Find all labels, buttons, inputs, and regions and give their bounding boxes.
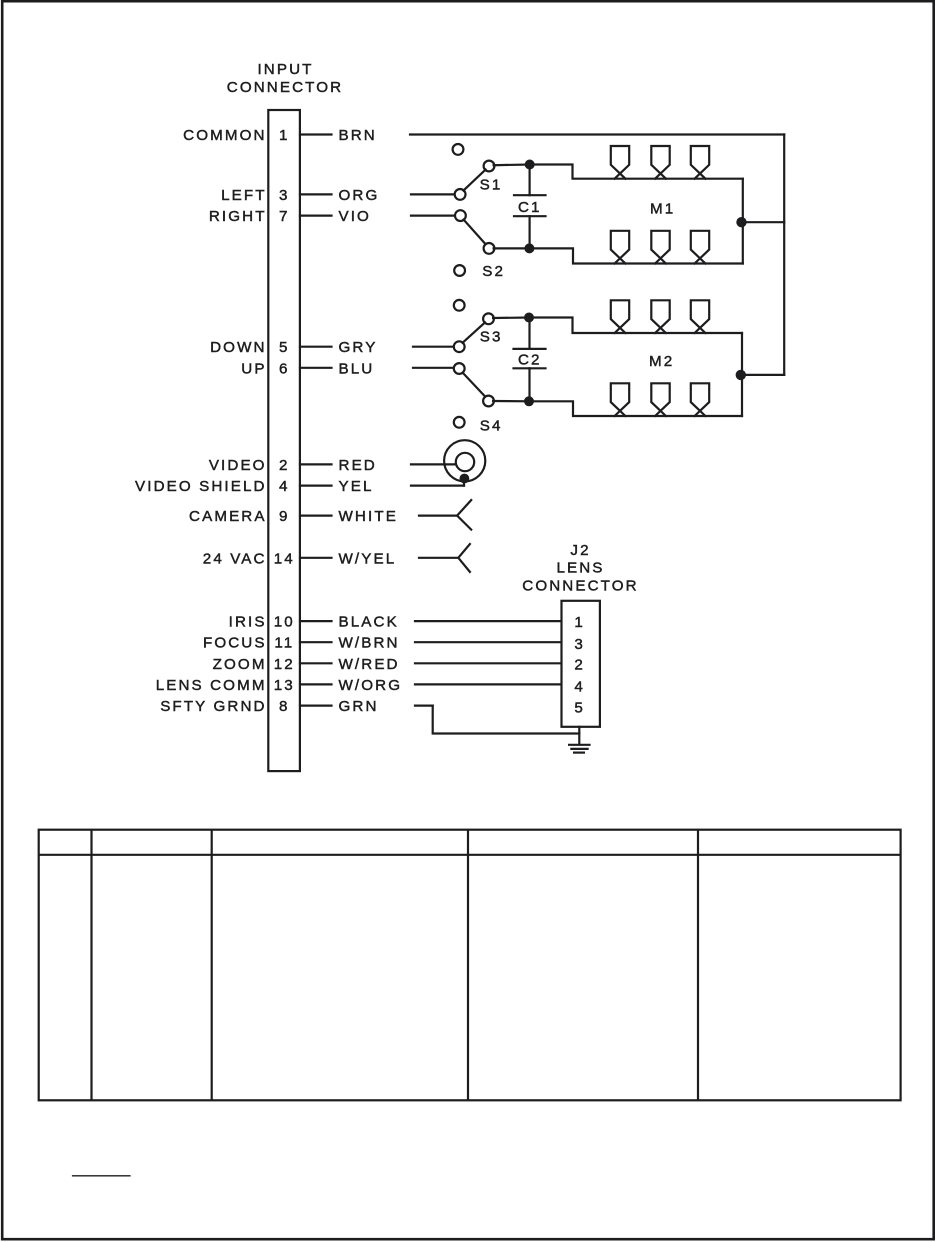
svg-text:1: 1 xyxy=(279,127,290,144)
footnote underline xyxy=(72,1175,131,1177)
wire S4 to node C2 bottom xyxy=(493,400,529,402)
wire YEL run xyxy=(411,485,464,487)
svg-text:2: 2 xyxy=(574,656,585,673)
switch S1 spare contact xyxy=(453,144,464,155)
pin 12 label ZOOM xyxy=(213,656,295,673)
svg-text:SFTY GRND: SFTY GRND xyxy=(160,698,266,715)
motor M2 top winding xyxy=(611,300,709,333)
wire J2 ground stub xyxy=(578,727,580,745)
capacitor C2 xyxy=(514,318,546,402)
svg-text:24 VAC: 24 VAC xyxy=(203,550,267,567)
wire BRN run xyxy=(410,133,784,135)
wire GRN run xyxy=(415,704,433,706)
svg-text:3: 3 xyxy=(574,636,585,653)
wire node to M1 top winding xyxy=(530,165,743,179)
switch S4 spare contact xyxy=(454,417,465,428)
svg-text:4: 4 xyxy=(574,678,585,695)
node junction C1 bottom xyxy=(524,243,534,253)
wire BLU run xyxy=(413,367,455,369)
pin 14 label 24 VAC xyxy=(203,550,295,567)
switch S3 common contact (pin 5) xyxy=(454,341,465,352)
node M1 center tap xyxy=(736,217,746,227)
switch S4 arm xyxy=(463,373,486,397)
svg-text:YEL: YEL xyxy=(339,478,374,495)
pin 3 label LEFT xyxy=(221,187,290,204)
svg-text:7: 7 xyxy=(279,208,290,225)
svg-text:BRN: BRN xyxy=(339,127,377,144)
svg-text:CONNECTOR: CONNECTOR xyxy=(522,577,639,594)
wire pin 4 stub xyxy=(300,485,332,487)
svg-text:C2: C2 xyxy=(518,351,542,368)
svg-text:12: 12 xyxy=(274,656,295,673)
motor M2 bottom winding xyxy=(611,383,709,416)
wire YEL shield stub xyxy=(463,479,465,486)
svg-text:ORG: ORG xyxy=(339,187,380,204)
wire RED run xyxy=(411,463,456,465)
wire pin 10 stub xyxy=(300,620,332,622)
pin 9 label CAMERA xyxy=(189,508,290,525)
node junction C2 top xyxy=(524,313,534,323)
wire pin 1 stub xyxy=(300,133,332,135)
svg-text:LENS: LENS xyxy=(556,560,604,577)
input connector title xyxy=(227,61,344,96)
wire W/ORG run xyxy=(415,683,562,685)
wire pin 7 stub xyxy=(300,215,332,217)
svg-text:VIDEO: VIDEO xyxy=(209,457,267,474)
svg-text:COMMON: COMMON xyxy=(183,127,266,144)
coax shield terminal dot xyxy=(460,474,470,484)
svg-text:GRN: GRN xyxy=(339,698,379,715)
wire W/YEL run xyxy=(419,557,458,559)
pin 10 label IRIS xyxy=(229,614,295,631)
wire S2 to node C1 bottom xyxy=(494,247,530,249)
svg-text:W/ORG: W/ORG xyxy=(339,677,403,694)
svg-text:FOCUS: FOCUS xyxy=(203,635,267,652)
svg-text:13: 13 xyxy=(274,677,295,694)
motor M1 right side + center tap xyxy=(742,179,744,264)
svg-text:CAMERA: CAMERA xyxy=(189,508,267,525)
svg-text:RIGHT: RIGHT xyxy=(209,208,267,225)
svg-text:M1: M1 xyxy=(650,200,675,217)
svg-text:9: 9 xyxy=(279,508,290,525)
pin 5 label DOWN xyxy=(210,339,289,356)
motor M2 right side + center tap xyxy=(741,333,743,416)
switch S2 throw contact xyxy=(484,243,495,254)
svg-text:11: 11 xyxy=(274,635,294,652)
svg-text:M2: M2 xyxy=(649,353,674,370)
pin 4 label VIDEO SHIELD xyxy=(135,478,290,495)
svg-text:8: 8 xyxy=(279,698,290,715)
wire ORG run xyxy=(411,193,455,195)
pin 2 label VIDEO xyxy=(209,457,290,474)
switch S3 spare contact xyxy=(454,300,465,311)
wire pin 5 stub xyxy=(300,346,332,348)
switch S1 arm xyxy=(463,170,485,191)
svg-text:14: 14 xyxy=(274,550,295,567)
wire BLACK run xyxy=(415,620,562,622)
node junction C2 bottom xyxy=(524,396,534,406)
svg-text:W/YEL: W/YEL xyxy=(339,550,397,567)
wire pin 3 stub xyxy=(300,193,332,195)
node junction C1 top xyxy=(525,160,535,170)
capacitor C1 xyxy=(514,165,546,249)
pin 1 label COMMON xyxy=(183,127,289,144)
switch S3 arm xyxy=(463,322,486,342)
svg-text:LENS COMM: LENS COMM xyxy=(156,677,267,694)
svg-text:S3: S3 xyxy=(480,329,503,346)
svg-text:2: 2 xyxy=(279,457,290,474)
wire WHITE run xyxy=(419,514,457,516)
svg-text:5: 5 xyxy=(279,339,290,356)
wire pin 14 stub xyxy=(300,557,332,559)
svg-text:CONNECTOR: CONNECTOR xyxy=(227,79,344,96)
switch S2 arm xyxy=(464,220,486,245)
svg-text:10: 10 xyxy=(274,614,295,631)
svg-text:J2: J2 xyxy=(570,542,590,559)
wire node to M1 bottom winding xyxy=(529,248,742,263)
wire W/RED run xyxy=(415,662,562,664)
svg-text:GRY: GRY xyxy=(339,339,378,356)
pin 7 label RIGHT xyxy=(209,208,290,225)
switch S1 common contact (pin 3) xyxy=(455,189,466,200)
coax video connector center pin xyxy=(456,453,474,471)
camera open connector symbol xyxy=(457,500,471,529)
wire pin 12 stub xyxy=(300,662,332,664)
wire pin 2 stub xyxy=(300,463,332,465)
svg-text:S1: S1 xyxy=(480,177,503,194)
svg-text:C1: C1 xyxy=(518,199,542,216)
svg-text:WHITE: WHITE xyxy=(339,508,398,525)
pin 11 label FOCUS xyxy=(203,635,294,652)
wire node to M2 top winding xyxy=(529,318,742,334)
24vac open connector symbol xyxy=(458,544,470,572)
svg-text:W/RED: W/RED xyxy=(339,656,400,673)
svg-text:BLACK: BLACK xyxy=(339,614,399,631)
switch S1 upper throw contact xyxy=(484,161,495,172)
input connector J1 body xyxy=(268,110,300,771)
coax video connector outer shield xyxy=(444,440,485,481)
svg-text:INPUT: INPUT xyxy=(257,61,313,78)
node M2 center tap xyxy=(736,370,746,380)
svg-text:5: 5 xyxy=(574,700,585,717)
wire node to M2 bottom winding xyxy=(529,401,742,416)
connector J2 title xyxy=(522,542,639,595)
switch S3 upper throw contact xyxy=(483,313,494,324)
wire GRN to ground xyxy=(433,706,580,734)
pin 8 label SFTY GRND xyxy=(160,698,289,715)
svg-text:ZOOM: ZOOM xyxy=(213,656,267,673)
connector J2 body xyxy=(562,601,600,727)
wire pin 6 stub xyxy=(300,367,332,369)
svg-text:VIO: VIO xyxy=(339,208,371,225)
wire pin 13 stub xyxy=(300,683,332,685)
svg-text:4: 4 xyxy=(279,478,290,495)
pin 6 label UP xyxy=(241,360,289,377)
svg-text:LEFT: LEFT xyxy=(221,187,267,204)
pin 13 label LENS COMM xyxy=(156,677,295,694)
wire pin 11 stub xyxy=(300,641,332,643)
svg-text:BLU: BLU xyxy=(339,360,375,377)
switch S4 common contact (pin 6) xyxy=(454,363,465,374)
motor M1 top winding xyxy=(611,146,709,179)
switch S4 throw contact xyxy=(483,396,494,407)
svg-text:S4: S4 xyxy=(480,417,503,434)
svg-text:3: 3 xyxy=(279,187,290,204)
wire W/BRN run xyxy=(415,641,562,643)
svg-text:RED: RED xyxy=(339,457,377,474)
wire GRY run xyxy=(413,346,455,348)
svg-text:W/BRN: W/BRN xyxy=(339,635,400,652)
switch S2 spare contact xyxy=(454,265,465,276)
svg-text:6: 6 xyxy=(279,360,290,377)
svg-text:UP: UP xyxy=(241,360,266,377)
parts table frame xyxy=(39,830,901,1101)
svg-text:IRIS: IRIS xyxy=(229,614,267,631)
switch S2 common contact (pin 7) xyxy=(455,210,466,221)
wire VIO run xyxy=(411,215,456,217)
svg-text:VIDEO SHIELD: VIDEO SHIELD xyxy=(135,478,267,495)
svg-text:S2: S2 xyxy=(482,263,505,280)
svg-text:DOWN: DOWN xyxy=(210,339,266,356)
wire pin 9 stub xyxy=(300,514,332,516)
wire S3 to node C2 top xyxy=(493,316,529,319)
motor M1 bottom winding xyxy=(611,231,709,264)
wire BRN right bus xyxy=(783,135,785,375)
wire S1 to node C1 top xyxy=(494,163,530,166)
svg-text:1: 1 xyxy=(574,614,585,631)
wire pin 8 stub xyxy=(300,704,332,706)
ground symbol xyxy=(569,745,589,753)
